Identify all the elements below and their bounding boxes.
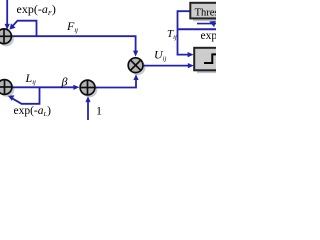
wire T path: threshold box to comparator <box>178 11 191 54</box>
wire L_ij line to S3 <box>12 86 75 88</box>
step glyph <box>204 54 217 63</box>
svg-text:β: β <box>61 75 68 89</box>
adder circle S1 <box>0 29 11 44</box>
wire S3 to multiplier <box>96 80 137 88</box>
shadow of adder circle S2 <box>0 82 14 97</box>
arrowhead L into S3 <box>73 85 79 90</box>
svg-text:Threshold: Threshold <box>195 7 216 18</box>
arrowhead U into step box <box>188 63 194 68</box>
threshold box <box>190 3 220 19</box>
wire decay feedback segment <box>197 23 216 25</box>
arrowhead feedback F into S1 <box>9 24 15 30</box>
adder circle S3 <box>80 80 95 95</box>
arrowhead feedback L into S2 <box>8 95 14 101</box>
arrowhead 1 into S3 <box>85 96 90 102</box>
svg-text:exp(-aT): exp(-aT) <box>201 30 217 43</box>
step function box <box>194 48 220 71</box>
shadow of threshold box <box>193 5 219 21</box>
wire feedback loop exp(-aF) <box>13 21 37 37</box>
wire feeding input arrow (top) <box>6 0 8 25</box>
arrow into multiplier top <box>133 51 138 57</box>
adder circle S2 <box>0 80 12 95</box>
wire feedback loop exp(-aL) <box>13 87 40 104</box>
wire F_ij output line <box>11 36 136 51</box>
shadow of adder circle S1 <box>0 31 14 46</box>
shadow of adder circle S3 <box>82 82 97 97</box>
arrowhead decay into threshold box <box>209 20 216 27</box>
wire threshold output line <box>178 28 217 30</box>
arrowhead feeding input <box>5 24 10 30</box>
svg-text:1: 1 <box>96 104 102 118</box>
shadow of step box <box>197 51 219 74</box>
wire U_ij to step box <box>144 65 190 67</box>
shadow of multiplier circle M1 <box>130 60 145 75</box>
arrowhead into multiplier bottom <box>133 74 138 80</box>
multiplier circle M1 <box>128 58 143 73</box>
wire constant 1 input <box>87 101 89 120</box>
arrowhead T into step box <box>188 52 194 57</box>
